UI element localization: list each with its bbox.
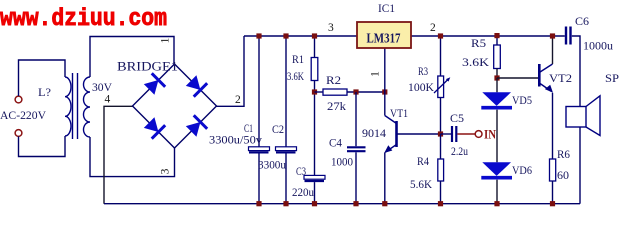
transistor VT1 emitter arrow bbox=[384, 145, 392, 153]
capacitor C2 bbox=[276, 147, 297, 151]
node dot R5-VD5-VT2base bbox=[494, 75, 499, 80]
node dot R1-R2 bbox=[312, 89, 317, 94]
node dot VT2 collector rail bbox=[550, 33, 555, 38]
wire VD6 bottom bbox=[496, 180, 498, 204]
svg-text:BRIDGE1: BRIDGE1 bbox=[117, 60, 178, 74]
wire C6 to speaker bbox=[572, 36, 580, 107]
wire IC1 pin1 ADJ bbox=[384, 48, 386, 92]
capacitor C4 bbox=[347, 146, 366, 148]
svg-text:VD6: VD6 bbox=[512, 163, 532, 177]
svg-text:3.6K: 3.6K bbox=[287, 69, 304, 83]
wire R4 top bbox=[440, 134, 442, 159]
svg-text:100K: 100K bbox=[408, 80, 434, 94]
svg-text:1000: 1000 bbox=[331, 155, 353, 169]
svg-text:27k: 27k bbox=[327, 99, 346, 113]
svg-text:5.6K: 5.6K bbox=[410, 177, 432, 191]
resistor R2 bbox=[323, 89, 347, 95]
transformer core bbox=[72, 73, 74, 139]
svg-text:VT1: VT1 bbox=[390, 106, 408, 120]
wire VT1 base bbox=[398, 133, 441, 135]
capacitor C6 bbox=[565, 27, 567, 45]
wire C5 left lead bbox=[441, 133, 452, 135]
svg-text:60: 60 bbox=[557, 168, 569, 182]
resistor R6 bbox=[550, 159, 556, 181]
wire C2 bottom bbox=[285, 154, 287, 204]
wire R5 top bbox=[496, 36, 498, 45]
transistor VT2 collector bbox=[539, 64, 552, 73]
speaker SP box bbox=[566, 107, 586, 128]
svg-text:C4: C4 bbox=[329, 136, 342, 150]
V+ rail right of IC1 bbox=[411, 35, 565, 37]
wire R1 top bbox=[314, 36, 316, 58]
wire C4 bottom bbox=[355, 152, 357, 203]
potentiometer R3 arrow bbox=[434, 79, 449, 93]
bridge diode D-bottomleft (4 to 3) bbox=[144, 117, 159, 132]
wire secondary top to bridge pin1 bbox=[90, 37, 174, 78]
svg-text:3.6K: 3.6K bbox=[462, 55, 489, 69]
svg-text:1: 1 bbox=[370, 71, 382, 77]
transformer L primary winding bbox=[65, 77, 71, 136]
AC source terminal T1 bbox=[15, 96, 22, 103]
node dot VT1base-C5-R4 bbox=[438, 131, 443, 136]
wire C3 bottom bbox=[314, 182, 316, 204]
svg-text:4: 4 bbox=[105, 94, 111, 106]
svg-text:R5: R5 bbox=[471, 36, 486, 50]
wire R2 right lead bbox=[347, 91, 385, 93]
svg-text:C2: C2 bbox=[272, 122, 284, 136]
wire C4 top bbox=[355, 92, 357, 146]
svg-text:R2: R2 bbox=[326, 73, 341, 87]
svg-text:3: 3 bbox=[328, 22, 334, 34]
svg-text:C6: C6 bbox=[575, 14, 589, 28]
wire VD5 top bbox=[496, 78, 498, 92]
svg-text:3300u: 3300u bbox=[258, 160, 286, 172]
wire C2 top bbox=[285, 36, 287, 147]
wire C1 top bbox=[258, 36, 260, 147]
svg-text:2.2u: 2.2u bbox=[451, 144, 468, 158]
wire R1 bottom to node ADJ bbox=[314, 81, 316, 93]
wire VD5 to VD6 bbox=[496, 110, 498, 163]
svg-text:L?: L? bbox=[38, 85, 51, 99]
svg-text:www.dziuu.com: www.dziuu.com bbox=[0, 6, 167, 33]
node dot C4 gnd bbox=[353, 201, 358, 206]
wire VT2 collector to rail bbox=[552, 36, 554, 64]
wire R3 top bbox=[440, 36, 442, 76]
wire AC top bbox=[19, 60, 66, 96]
diode VD6 bbox=[482, 162, 511, 176]
node dot C1 gnd bbox=[256, 201, 261, 206]
wire speaker to ground bbox=[579, 127, 581, 204]
svg-text:30V: 30V bbox=[92, 80, 112, 94]
node dot R5 top bbox=[494, 33, 499, 38]
transistor VT1 base bar bbox=[395, 121, 398, 147]
node dot R3 top bbox=[438, 33, 443, 38]
wire bridge pin4 to ground bbox=[104, 106, 133, 203]
node dot R2-pin1 bbox=[382, 89, 387, 94]
svg-text:LM317: LM317 bbox=[367, 32, 401, 47]
wire R2 left lead bbox=[315, 91, 324, 93]
wire secondary bottom to bridge pin3 bbox=[90, 137, 175, 177]
bridge diode D-topright (1 to 2) bbox=[186, 75, 201, 90]
node dot C2 top bbox=[283, 33, 288, 38]
svg-text:220u: 220u bbox=[292, 185, 314, 199]
svg-text:2: 2 bbox=[235, 94, 241, 106]
svg-text:AC-220V: AC-220V bbox=[0, 108, 46, 122]
resistor R1 bbox=[311, 58, 318, 81]
V+ rail left of IC1 bbox=[244, 35, 357, 37]
bridge diode D-topleft (4 to 1) bbox=[144, 80, 159, 95]
resistor R4 bbox=[438, 159, 444, 181]
speaker SP cone bbox=[586, 96, 600, 136]
transistor VT1 emitter bbox=[385, 145, 396, 153]
wire VT1 emitter to ground bbox=[384, 153, 386, 204]
transistor VT2 emitter bbox=[539, 83, 551, 92]
node dot R2-C4 bbox=[353, 89, 358, 94]
svg-text:VD5: VD5 bbox=[512, 93, 532, 107]
wire AC bottom bbox=[19, 136, 66, 157]
node dot C1 top bbox=[256, 33, 261, 38]
svg-text:1000u: 1000u bbox=[583, 39, 613, 53]
wire R6 bottom bbox=[552, 181, 554, 204]
node dot C2 gnd bbox=[283, 201, 288, 206]
wire R1C3 column bbox=[314, 92, 316, 175]
wire R3 bottom bbox=[440, 98, 442, 135]
ground rail bbox=[104, 203, 580, 205]
wire C1 bottom bbox=[258, 154, 260, 204]
diode VD5 bbox=[482, 92, 511, 106]
node dot R6 gnd bbox=[550, 201, 555, 206]
svg-text:R1: R1 bbox=[292, 52, 304, 66]
capacitor C3 bbox=[304, 175, 325, 179]
resistor R5 bbox=[494, 45, 501, 69]
wire IC1 pin1 to VT1 collector bbox=[384, 92, 386, 116]
svg-text:IC1: IC1 bbox=[378, 1, 395, 15]
svg-text:VT2: VT2 bbox=[549, 71, 572, 85]
wire C5 to IN terminal bbox=[457, 133, 475, 135]
svg-text:1: 1 bbox=[160, 37, 172, 43]
node dot R1 top bbox=[312, 33, 317, 38]
wire R4 bottom bbox=[440, 181, 442, 204]
svg-text:R3: R3 bbox=[418, 64, 428, 78]
AC source terminal T2 bbox=[15, 130, 22, 137]
svg-text:SP: SP bbox=[605, 71, 619, 85]
terminal IN circle bbox=[475, 131, 482, 138]
svg-text:3: 3 bbox=[160, 168, 172, 174]
svg-text:IN: IN bbox=[484, 128, 496, 142]
node dot R4 gnd bbox=[438, 201, 443, 206]
transformer secondary winding bbox=[84, 77, 91, 137]
capacitor C1 bbox=[249, 147, 270, 151]
svg-text:R4: R4 bbox=[417, 154, 429, 168]
transistor VT1 collector bbox=[385, 116, 397, 124]
wire VT2 emitter to R6 bbox=[552, 93, 554, 159]
bridge diode D-bottomright (3 to 2) bbox=[186, 122, 201, 137]
wire VT2 base bbox=[497, 77, 538, 79]
svg-text:9014: 9014 bbox=[362, 126, 386, 140]
svg-text:C3: C3 bbox=[296, 164, 306, 178]
svg-text:R6: R6 bbox=[557, 147, 570, 161]
IC U1 LM317 box bbox=[357, 22, 411, 48]
wire R5 bottom bbox=[496, 69, 498, 79]
capacitor C5 bbox=[451, 126, 453, 142]
potentiometer R3 body bbox=[438, 76, 444, 98]
svg-text:3300u/50v: 3300u/50v bbox=[209, 135, 262, 147]
node dot VD6 gnd bbox=[494, 201, 499, 206]
transistor VT2 emitter arrow bbox=[545, 85, 553, 93]
svg-text:C5: C5 bbox=[450, 111, 464, 125]
svg-text:C1: C1 bbox=[244, 121, 253, 135]
transistor VT2 base bar bbox=[538, 64, 541, 87]
bridge BRIDGE1 outline diamond bbox=[133, 64, 217, 148]
wire bridge pin2 to V+ rail bbox=[217, 36, 245, 106]
node dot C3 gnd bbox=[312, 201, 317, 206]
svg-text:2: 2 bbox=[430, 22, 436, 34]
node dot VT1 emitter gnd bbox=[382, 201, 387, 206]
